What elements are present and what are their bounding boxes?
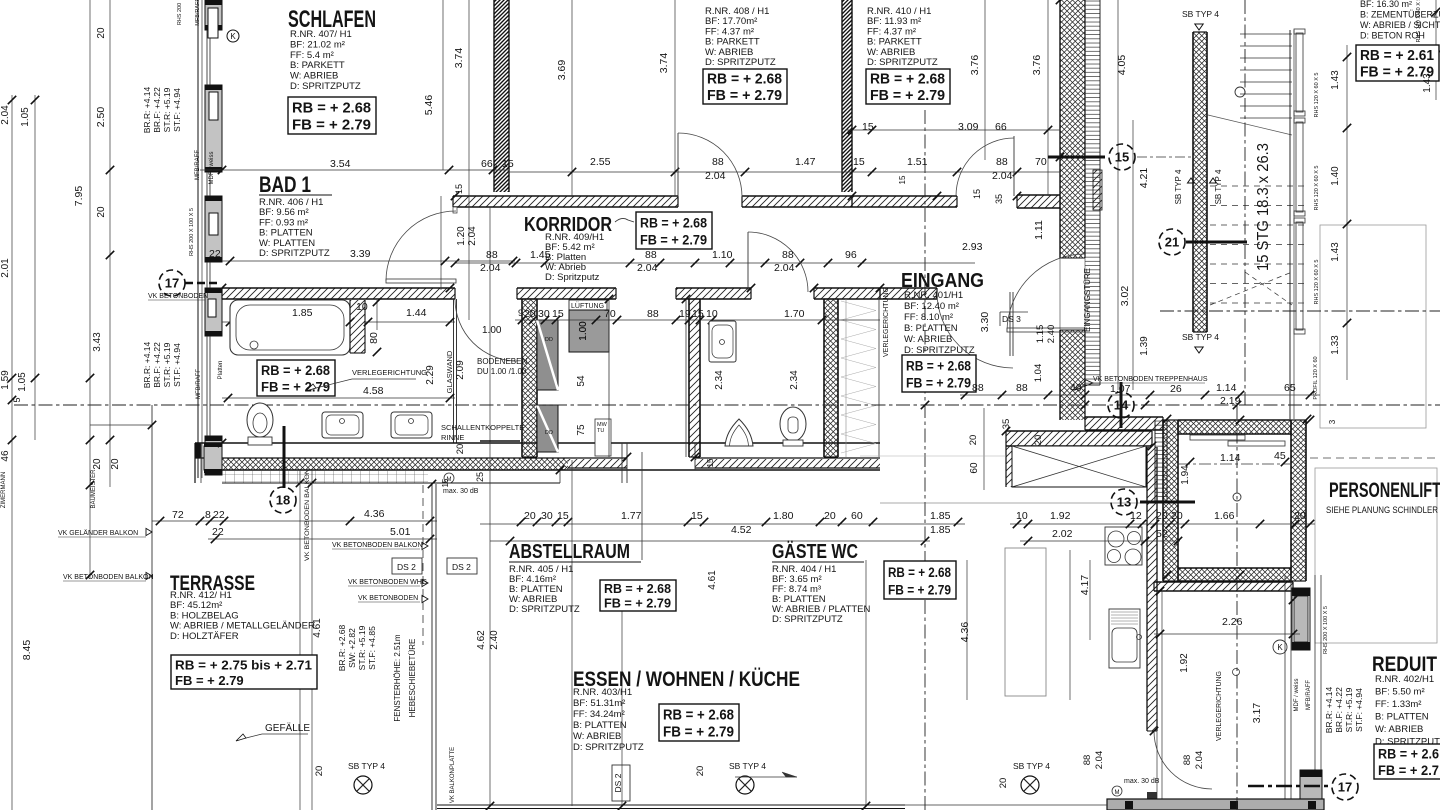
- svg-text:4.36: 4.36: [364, 508, 385, 520]
- svg-text:SB TYP 4: SB TYP 4: [729, 761, 766, 771]
- svg-text:BR.F: +4.22: BR.F: +4.22: [152, 87, 162, 133]
- svg-text:1.15: 1.15: [1035, 325, 1046, 344]
- svg-text:FB = + 2.79: FB = + 2.79: [888, 582, 951, 597]
- svg-text:RB = + 2.68: RB = + 2.68: [261, 363, 330, 378]
- svg-text:1.80: 1.80: [773, 510, 794, 522]
- svg-text:SB TYP 4: SB TYP 4: [1214, 169, 1223, 204]
- svg-text:2.04: 2.04: [1194, 751, 1205, 770]
- svg-text:1.14: 1.14: [1216, 382, 1237, 394]
- svg-text:MDF / weiss: MDF / weiss: [209, 152, 215, 185]
- svg-text:FB = + 2.79: FB = + 2.79: [707, 88, 782, 104]
- svg-text:20: 20: [455, 444, 466, 455]
- svg-text:RHS 120 X 60 X 5: RHS 120 X 60 X 5: [1314, 260, 1320, 305]
- svg-text:20: 20: [695, 766, 706, 777]
- svg-text:1.51: 1.51: [907, 156, 928, 168]
- svg-text:VK BETONBODEN TREPPENHAUS: VK BETONBODEN TREPPENHAUS: [1093, 376, 1208, 383]
- svg-text:1.66: 1.66: [1214, 510, 1235, 522]
- svg-text:B: PLATTEN: B: PLATTEN: [904, 323, 958, 334]
- svg-text:VK BETONBODEN WHG: VK BETONBODEN WHG: [348, 579, 427, 586]
- svg-text:8.45: 8.45: [21, 640, 33, 661]
- svg-text:RHS 120 X 60 X 5: RHS 120 X 60 X 5: [1314, 166, 1320, 211]
- svg-text:2.04: 2.04: [480, 262, 501, 274]
- svg-text:1.77: 1.77: [621, 510, 642, 522]
- svg-text:VK BETONBODEN BALKON: VK BETONBODEN BALKON: [304, 469, 311, 561]
- svg-text:88: 88: [647, 308, 659, 320]
- svg-text:RB = + 2.68: RB = + 2.68: [640, 216, 707, 231]
- svg-text:2.01: 2.01: [0, 258, 11, 278]
- svg-text:SCHALLENTKOPPELTE: SCHALLENTKOPPELTE: [441, 423, 524, 432]
- svg-text:20: 20: [824, 510, 836, 522]
- svg-text:88: 88: [712, 156, 724, 168]
- svg-text:13: 13: [1117, 495, 1131, 510]
- svg-text:75: 75: [576, 424, 587, 436]
- svg-text:BF: 21.02 m²: BF: 21.02 m²: [290, 39, 345, 50]
- svg-text:EINGANG: EINGANG: [901, 270, 984, 292]
- svg-text:2.34: 2.34: [714, 370, 725, 390]
- svg-text:BAUMEISTER: BAUMEISTER: [91, 469, 97, 509]
- svg-text:15: 15: [692, 308, 704, 320]
- svg-text:1.92: 1.92: [1050, 510, 1071, 522]
- svg-text:D: HOLZTÄFER: D: HOLZTÄFER: [170, 631, 239, 642]
- svg-text:R.NR. 401/H1: R.NR. 401/H1: [904, 290, 963, 301]
- svg-text:RB = + 2.68: RB = + 2.68: [888, 565, 951, 580]
- svg-text:ST.R: +5.19: ST.R: +5.19: [357, 625, 367, 670]
- svg-text:RB = + 2.68: RB = + 2.68: [906, 359, 971, 374]
- svg-text:1.43: 1.43: [1422, 73, 1433, 93]
- svg-text:3: 3: [1328, 419, 1337, 424]
- svg-text:BR.F: +4.22: BR.F: +4.22: [152, 342, 162, 388]
- svg-text:18: 18: [276, 493, 290, 508]
- svg-text:20: 20: [524, 510, 536, 522]
- svg-text:4.21: 4.21: [1138, 168, 1150, 189]
- svg-text:17: 17: [1338, 780, 1352, 795]
- svg-text:max. 30 dB: max. 30 dB: [443, 488, 479, 495]
- svg-text:MFB/RAFF: MFB/RAFF: [1306, 680, 1312, 710]
- svg-text:RHS 200 X 100 X 5: RHS 200 X 100 X 5: [1323, 606, 1329, 654]
- svg-text:ABSTELLRAUM: ABSTELLRAUM: [509, 541, 630, 563]
- svg-text:D: SPRITZPUTZ: D: SPRITZPUTZ: [290, 81, 361, 92]
- svg-text:20: 20: [524, 308, 536, 320]
- svg-text:1.00: 1.00: [578, 321, 589, 341]
- svg-text:TU: TU: [597, 428, 604, 434]
- svg-text:15: 15: [557, 510, 569, 522]
- svg-text:ST.R: +5.19: ST.R: +5.19: [162, 87, 172, 132]
- svg-text:RB = + 2.61: RB = + 2.61: [1360, 48, 1434, 64]
- svg-text:5.01: 5.01: [390, 526, 411, 538]
- svg-text:4.36: 4.36: [959, 622, 971, 643]
- svg-text:1.04: 1.04: [1033, 364, 1044, 383]
- svg-text:FF: 8.10 m²: FF: 8.10 m²: [904, 312, 953, 323]
- svg-text:10: 10: [356, 301, 368, 313]
- svg-text:5: 5: [12, 397, 22, 402]
- svg-text:21: 21: [1165, 235, 1179, 250]
- svg-text:30: 30: [541, 510, 553, 522]
- svg-text:M: M: [1115, 790, 1120, 796]
- svg-text:FF: 34.24m²: FF: 34.24m²: [573, 709, 625, 720]
- svg-text:VK BETONBODEN BALKON: VK BETONBODEN BALKON: [332, 542, 423, 549]
- svg-text:60: 60: [851, 510, 863, 522]
- svg-text:BAD 1: BAD 1: [259, 172, 311, 197]
- svg-text:30: 30: [538, 308, 550, 320]
- svg-text:1.47: 1.47: [795, 156, 816, 168]
- svg-text:2.50: 2.50: [95, 107, 107, 128]
- svg-text:W: ABRIEB: W: ABRIEB: [904, 334, 952, 345]
- svg-text:88: 88: [972, 382, 984, 394]
- svg-text:20: 20: [998, 778, 1009, 789]
- svg-text:12: 12: [1130, 510, 1142, 522]
- svg-text:22: 22: [213, 509, 225, 521]
- svg-text:70: 70: [1035, 156, 1047, 168]
- svg-text:72: 72: [172, 509, 184, 521]
- svg-text:BR.R: +2.68: BR.R: +2.68: [337, 624, 347, 671]
- svg-text:DD: DD: [545, 337, 553, 343]
- svg-text:VK GELÄNDER BALKON: VK GELÄNDER BALKON: [58, 529, 138, 537]
- svg-text:R.NR. 402/H1: R.NR. 402/H1: [1375, 674, 1434, 685]
- svg-text:15: 15: [862, 121, 874, 133]
- svg-text:ST.R: +5.19: ST.R: +5.19: [1344, 687, 1354, 732]
- svg-text:MFB/RAFF: MFB/RAFF: [196, 369, 202, 399]
- svg-text:20: 20: [1294, 510, 1306, 522]
- svg-text:20: 20: [1033, 435, 1044, 446]
- svg-text:B: PLATTEN: B: PLATTEN: [1375, 712, 1429, 723]
- svg-text:66: 66: [995, 121, 1007, 133]
- svg-text:SB TYP 4: SB TYP 4: [1013, 761, 1050, 771]
- svg-text:ZIMERMANN: ZIMERMANN: [1, 472, 7, 508]
- svg-text:10: 10: [1016, 510, 1028, 522]
- svg-text:DS 2: DS 2: [397, 562, 416, 572]
- svg-text:BR.F: +4.22: BR.F: +4.22: [1334, 687, 1344, 733]
- svg-text:2.40: 2.40: [489, 630, 500, 650]
- svg-text:2.29: 2.29: [425, 365, 436, 385]
- svg-text:MFB/RAFF: MFB/RAFF: [195, 150, 201, 180]
- svg-text:GÄSTE WC: GÄSTE WC: [772, 540, 858, 563]
- svg-text:BR.R: +4.14: BR.R: +4.14: [142, 341, 152, 388]
- svg-text:3.09: 3.09: [958, 121, 979, 133]
- svg-text:D: SPRITZPUTZ: D: SPRITZPUTZ: [772, 614, 843, 625]
- svg-text:1.39: 1.39: [1139, 336, 1150, 356]
- svg-text:1.85: 1.85: [930, 510, 951, 522]
- svg-text:2.04: 2.04: [705, 170, 726, 182]
- svg-text:1.43: 1.43: [1330, 242, 1341, 262]
- svg-text:K: K: [1277, 643, 1283, 652]
- svg-text:2.04: 2.04: [637, 262, 658, 274]
- svg-text:2.09: 2.09: [455, 360, 466, 380]
- svg-text:MDF / weiss: MDF / weiss: [1294, 679, 1300, 712]
- svg-text:35: 35: [994, 194, 1004, 204]
- svg-text:W: ABRIEB: W: ABRIEB: [290, 71, 338, 82]
- svg-text:2.34: 2.34: [789, 370, 800, 390]
- svg-text:ST.F: +4.85: ST.F: +4.85: [367, 626, 377, 670]
- svg-text:54: 54: [576, 375, 587, 387]
- svg-text:K: K: [230, 32, 236, 41]
- svg-text:VERLEGERICHTUNG: VERLEGERICHTUNG: [883, 287, 890, 357]
- svg-text:8: 8: [205, 509, 211, 521]
- svg-text:DS 2: DS 2: [613, 773, 623, 792]
- svg-text:65: 65: [1284, 382, 1296, 394]
- svg-text:15: 15: [1115, 150, 1129, 165]
- svg-text:70: 70: [604, 308, 616, 320]
- svg-text:20: 20: [92, 458, 103, 470]
- svg-text:RHS 120 X 60 X 5: RHS 120 X 60 X 5: [1416, 0, 1422, 42]
- svg-text:19: 19: [679, 308, 691, 320]
- svg-text:1.70: 1.70: [784, 308, 805, 320]
- svg-text:1.20: 1.20: [456, 226, 467, 246]
- svg-text:FB = + 2.79: FB = + 2.79: [906, 376, 971, 391]
- svg-text:GEFÄLLE: GEFÄLLE: [265, 722, 310, 734]
- svg-text:4.61: 4.61: [707, 570, 718, 590]
- svg-text:MFB/RAFF: MFB/RAFF: [195, 0, 201, 26]
- svg-text:15: 15: [898, 175, 907, 184]
- svg-text:HEBESCHIEBETÜRE: HEBESCHIEBETÜRE: [408, 639, 417, 718]
- svg-text:15: 15: [706, 458, 715, 467]
- svg-text:88: 88: [645, 249, 657, 261]
- svg-text:REDUIT: REDUIT: [1372, 653, 1437, 676]
- svg-text:RHS 120 X 60 X 5: RHS 120 X 60 X 5: [1314, 73, 1320, 118]
- svg-text:88: 88: [782, 249, 794, 261]
- svg-text:W: ABRIEB: W: ABRIEB: [1375, 724, 1423, 735]
- svg-text:VERLEGERICHTUNG: VERLEGERICHTUNG: [352, 368, 427, 377]
- svg-text:3.74: 3.74: [658, 53, 670, 74]
- svg-text:3.69: 3.69: [556, 60, 568, 81]
- svg-text:2.04: 2.04: [0, 105, 11, 125]
- svg-text:7.95: 7.95: [73, 186, 85, 207]
- svg-text:3.02: 3.02: [1119, 286, 1131, 307]
- svg-text:BR.R: +4.14: BR.R: +4.14: [1324, 686, 1334, 733]
- svg-text:1.11: 1.11: [1033, 220, 1045, 240]
- svg-text:D: SPRITZPUTZ: D: SPRITZPUTZ: [259, 248, 330, 259]
- svg-text:FB = + 2.7: FB = + 2.7: [1378, 763, 1439, 778]
- svg-text:4.17: 4.17: [1079, 575, 1091, 596]
- svg-text:88: 88: [996, 156, 1008, 168]
- svg-text:2.02: 2.02: [1052, 528, 1073, 540]
- svg-text:2.04: 2.04: [1094, 751, 1105, 770]
- svg-text:4.52: 4.52: [731, 524, 752, 536]
- svg-text:RB = + 2.68: RB = + 2.68: [604, 581, 671, 596]
- svg-text:3.39: 3.39: [350, 248, 371, 260]
- svg-text:FB = + 2.79: FB = + 2.79: [604, 595, 671, 610]
- svg-text:66: 66: [481, 158, 493, 170]
- svg-text:60: 60: [969, 462, 980, 474]
- svg-text:46: 46: [0, 450, 11, 462]
- svg-text:D: SPRITZPUTZ: D: SPRITZPUTZ: [867, 57, 938, 68]
- svg-text:22: 22: [212, 526, 224, 538]
- svg-text:RB = + 2.68: RB = + 2.68: [663, 708, 734, 724]
- svg-text:3.74: 3.74: [453, 48, 465, 69]
- svg-text:BF: 12.40 m²: BF: 12.40 m²: [904, 301, 959, 312]
- svg-text:max. 30 dB: max. 30 dB: [1124, 778, 1160, 785]
- svg-text:26: 26: [1170, 383, 1182, 395]
- svg-text:BR.R: +4.14: BR.R: +4.14: [142, 86, 152, 133]
- svg-text:15: 15: [552, 308, 564, 320]
- svg-text:20: 20: [96, 27, 107, 39]
- svg-text:22: 22: [209, 248, 221, 260]
- svg-text:96: 96: [845, 249, 857, 261]
- svg-text:2.04: 2.04: [992, 170, 1013, 182]
- svg-text:D: SPRITZPUTZ: D: SPRITZPUTZ: [573, 742, 644, 753]
- svg-text:FB = + 2.79: FB = + 2.79: [640, 233, 707, 248]
- svg-text:1.33: 1.33: [1330, 335, 1341, 355]
- svg-text:R.NR. 407/ H1: R.NR. 407/ H1: [290, 29, 352, 40]
- svg-text:FF: 5.4 m²: FF: 5.4 m²: [290, 50, 334, 61]
- svg-text:1.59: 1.59: [0, 370, 11, 390]
- svg-text:1.85: 1.85: [930, 524, 951, 536]
- svg-text:4.61: 4.61: [312, 618, 323, 638]
- svg-text:80: 80: [368, 332, 380, 344]
- svg-text:4.58: 4.58: [363, 385, 384, 397]
- svg-text:1.05: 1.05: [20, 107, 31, 127]
- svg-text:3.76: 3.76: [969, 55, 981, 76]
- svg-text:LÜFTUNG: LÜFTUNG: [571, 302, 604, 310]
- svg-text:3.30: 3.30: [979, 312, 991, 333]
- svg-text:15 STG 18.3 x 26.3: 15 STG 18.3 x 26.3: [1255, 143, 1272, 271]
- svg-text:20: 20: [110, 458, 121, 470]
- svg-text:PROFIL 120 X 60: PROFIL 120 X 60: [1313, 356, 1319, 399]
- svg-text:15: 15: [972, 189, 982, 199]
- svg-text:SB TYP 4: SB TYP 4: [348, 761, 385, 771]
- svg-text:D: SPRITZPUTZ: D: SPRITZPUTZ: [705, 57, 776, 68]
- svg-text:1.85: 1.85: [292, 307, 313, 319]
- svg-text:D: Spritzputz: D: Spritzputz: [545, 272, 600, 283]
- svg-text:1.45: 1.45: [530, 249, 551, 261]
- svg-text:RB = + 2.75 bis + 2.71: RB = + 2.75 bis + 2.71: [175, 657, 312, 672]
- svg-text:1.05: 1.05: [17, 372, 28, 392]
- svg-text:2.04: 2.04: [467, 226, 478, 246]
- svg-text:1.94: 1.94: [1180, 465, 1191, 485]
- svg-text:B: ZEMENTÜBERZUG: B: ZEMENTÜBERZUG: [1360, 10, 1440, 20]
- svg-text:88: 88: [1182, 755, 1193, 766]
- svg-text:VK BALKONPLATTE: VK BALKONPLATTE: [450, 747, 456, 803]
- svg-text:3.54: 3.54: [330, 158, 351, 170]
- svg-text:20: 20: [1171, 510, 1183, 522]
- svg-text:SB TYP 4: SB TYP 4: [1182, 9, 1219, 19]
- svg-text:20: 20: [968, 435, 979, 446]
- svg-text:RHS 200 X 100 X 5: RHS 200 X 100 X 5: [189, 208, 195, 256]
- svg-text:BF: 16.30 m²: BF: 16.30 m²: [1360, 0, 1412, 9]
- svg-text:5.46: 5.46: [423, 95, 435, 116]
- svg-text:17: 17: [165, 276, 179, 291]
- svg-text:4.05: 4.05: [1116, 55, 1128, 76]
- svg-text:9: 9: [518, 308, 523, 318]
- svg-text:20: 20: [1156, 510, 1168, 522]
- svg-text:DS 2: DS 2: [452, 562, 471, 572]
- svg-text:DS 3: DS 3: [1002, 314, 1021, 324]
- svg-text:W: ABRIEB: W: ABRIEB: [573, 731, 621, 742]
- svg-text:ST.R: +5.19: ST.R: +5.19: [162, 342, 172, 387]
- svg-text:RINNE: RINNE: [441, 433, 464, 442]
- svg-text:2.55: 2.55: [590, 156, 611, 168]
- svg-text:BODENEBEN: BODENEBEN: [477, 357, 527, 366]
- svg-text:1.07: 1.07: [1110, 383, 1131, 395]
- svg-text:88: 88: [1016, 382, 1028, 394]
- svg-text:3.17: 3.17: [1251, 703, 1263, 724]
- svg-text:ST.F: +4.94: ST.F: +4.94: [172, 343, 182, 387]
- svg-text:BF: 51.31m²: BF: 51.31m²: [573, 698, 625, 709]
- svg-text:1.44: 1.44: [406, 307, 427, 319]
- svg-text:3.76: 3.76: [1031, 55, 1043, 76]
- svg-text:ST.F: +4.94: ST.F: +4.94: [1354, 688, 1364, 732]
- svg-text:FF: 1.33m²: FF: 1.33m²: [1375, 699, 1421, 710]
- svg-text:B: PLATTEN: B: PLATTEN: [573, 720, 627, 731]
- svg-text:Platten: Platten: [218, 361, 224, 380]
- svg-text:VK BETONBODEN: VK BETONBODEN: [148, 293, 208, 300]
- svg-text:15: 15: [853, 156, 865, 168]
- svg-text:R.NR. 403/H1: R.NR. 403/H1: [573, 687, 632, 698]
- svg-text:DD: DD: [545, 430, 553, 436]
- svg-text:W: ABRIEB / SICHTB: W: ABRIEB / SICHTB: [1360, 20, 1440, 30]
- svg-text:45: 45: [1274, 450, 1286, 462]
- svg-text:RB = + 2.6: RB = + 2.6: [1378, 747, 1439, 762]
- svg-text:2.40: 2.40: [1046, 325, 1057, 344]
- svg-text:FB = + 2.79: FB = + 2.79: [292, 118, 371, 134]
- svg-text:15: 15: [441, 478, 450, 487]
- svg-text:GLASWAND: GLASWAND: [445, 350, 454, 393]
- svg-text:20: 20: [96, 206, 107, 218]
- svg-text:VK BETONBODEN: VK BETONBODEN: [358, 595, 418, 602]
- svg-text:RB = + 2.68: RB = + 2.68: [707, 72, 782, 88]
- svg-text:RB = + 2.68: RB = + 2.68: [292, 101, 371, 117]
- svg-text:RB = + 2.68: RB = + 2.68: [870, 72, 945, 88]
- svg-text:VERLEGERICHTUNG: VERLEGERICHTUNG: [1216, 671, 1223, 741]
- svg-text:4.62: 4.62: [476, 630, 487, 650]
- svg-text:DU 1.00 /1.00: DU 1.00 /1.00: [477, 367, 527, 376]
- svg-text:10: 10: [706, 308, 718, 320]
- svg-text:SB TYP 4: SB TYP 4: [1174, 169, 1183, 204]
- svg-text:SB TYP 4: SB TYP 4: [1182, 332, 1219, 342]
- svg-text:B: PARKETT: B: PARKETT: [290, 60, 345, 71]
- svg-text:ST.F: +4.94: ST.F: +4.94: [172, 88, 182, 132]
- svg-text:PERSONENLIFT: PERSONENLIFT: [1329, 479, 1440, 502]
- svg-text:15: 15: [502, 158, 514, 170]
- svg-text:FENSTERHÖHE: 2.51m: FENSTERHÖHE: 2.51m: [393, 634, 402, 721]
- svg-text:EINGANGSTÜRE: EINGANGSTÜRE: [1083, 268, 1092, 332]
- svg-text:1.92: 1.92: [1179, 653, 1190, 673]
- svg-text:2.26: 2.26: [1222, 616, 1243, 628]
- svg-text:15: 15: [691, 510, 703, 522]
- svg-text:BF: 5.50 m²: BF: 5.50 m²: [1375, 687, 1425, 698]
- svg-text:SIEHE PLANUNG SCHINDLER: SIEHE PLANUNG SCHINDLER: [1326, 505, 1438, 515]
- svg-text:D: SPRITZPUTZ: D: SPRITZPUTZ: [509, 604, 580, 615]
- svg-text:1.00: 1.00: [482, 325, 502, 336]
- svg-text:14: 14: [1114, 398, 1129, 413]
- svg-text:1.43: 1.43: [1330, 70, 1341, 90]
- svg-text:FB = + 2.79: FB = + 2.79: [175, 673, 244, 688]
- svg-text:FB = + 2.79: FB = + 2.79: [870, 88, 945, 104]
- svg-text:VK BETONBODEN BALKON: VK BETONBODEN BALKON: [63, 574, 154, 581]
- svg-text:2.93: 2.93: [962, 241, 983, 253]
- svg-text:SW: +2.82: SW: +2.82: [347, 628, 357, 668]
- svg-text:25: 25: [475, 472, 485, 482]
- svg-text:2.04: 2.04: [774, 262, 795, 274]
- svg-text:FB = + 2.79: FB = + 2.79: [663, 725, 734, 741]
- svg-text:1.10: 1.10: [712, 249, 733, 261]
- svg-text:3.43: 3.43: [92, 332, 103, 352]
- svg-text:52: 52: [1156, 528, 1168, 540]
- svg-text:1.40: 1.40: [1330, 166, 1341, 186]
- svg-text:1.14: 1.14: [1220, 452, 1241, 464]
- svg-text:RHS 200: RHS 200: [177, 3, 183, 25]
- svg-text:20: 20: [314, 766, 325, 777]
- svg-text:88: 88: [486, 249, 498, 261]
- svg-text:88: 88: [1082, 755, 1093, 766]
